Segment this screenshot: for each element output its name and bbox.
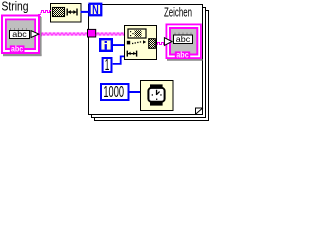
constant 1: [102, 57, 113, 74]
for-loop page 3 (backmost sheet): [95, 11, 209, 121]
svg-text:Zeichen: Zeichen: [164, 5, 192, 20]
wire: string control to tunnel (magenta square wave): [40, 33, 88, 35]
wire: horizontal into string length input: [41, 11, 52, 13]
svg-text:abc: abc: [176, 34, 191, 44]
svg-text:1000: 1000: [103, 84, 124, 101]
for-loop page 2 (middle sheet): [92, 8, 206, 118]
wire: branch vertical up to string length: [39, 14, 41, 35]
svg-text:N: N: [92, 3, 99, 17]
string indicator terminal "Zeichen": [164, 24, 202, 61]
wire: 1000 to wait (blue): [130, 91, 141, 93]
string length function U1: [51, 4, 82, 23]
tunnel on loop border: [88, 29, 96, 37]
wire: string length to N (blue): [81, 11, 90, 13]
junction: [39, 33, 42, 36]
dog-ear fold bottom-right: [196, 108, 204, 115]
string control terminal "String": [1, 15, 42, 57]
iteration terminal i: [99, 38, 113, 52]
wire: tunnel to string subset (magenta square wave): [96, 33, 125, 35]
wire: i to string subset offset input (blue): [113, 44, 125, 46]
constant 1000: [100, 83, 130, 101]
string subset function U2: [125, 26, 157, 60]
wire: string subset to Zeichen (magenta square wave): [157, 43, 165, 45]
wire: 1 to string subset length input (blue elbow): [113, 56, 125, 64]
wait (ms) function U3: [141, 81, 174, 111]
svg-text:abc: abc: [176, 50, 189, 60]
loop count terminal N: [88, 3, 102, 17]
svg-text:String: String: [2, 0, 29, 14]
svg-text:1: 1: [105, 57, 110, 74]
svg-text:abc: abc: [12, 29, 27, 39]
for-loop page 1 (front sheet / loop frame): [89, 5, 203, 115]
svg-text:abc: abc: [11, 44, 24, 54]
